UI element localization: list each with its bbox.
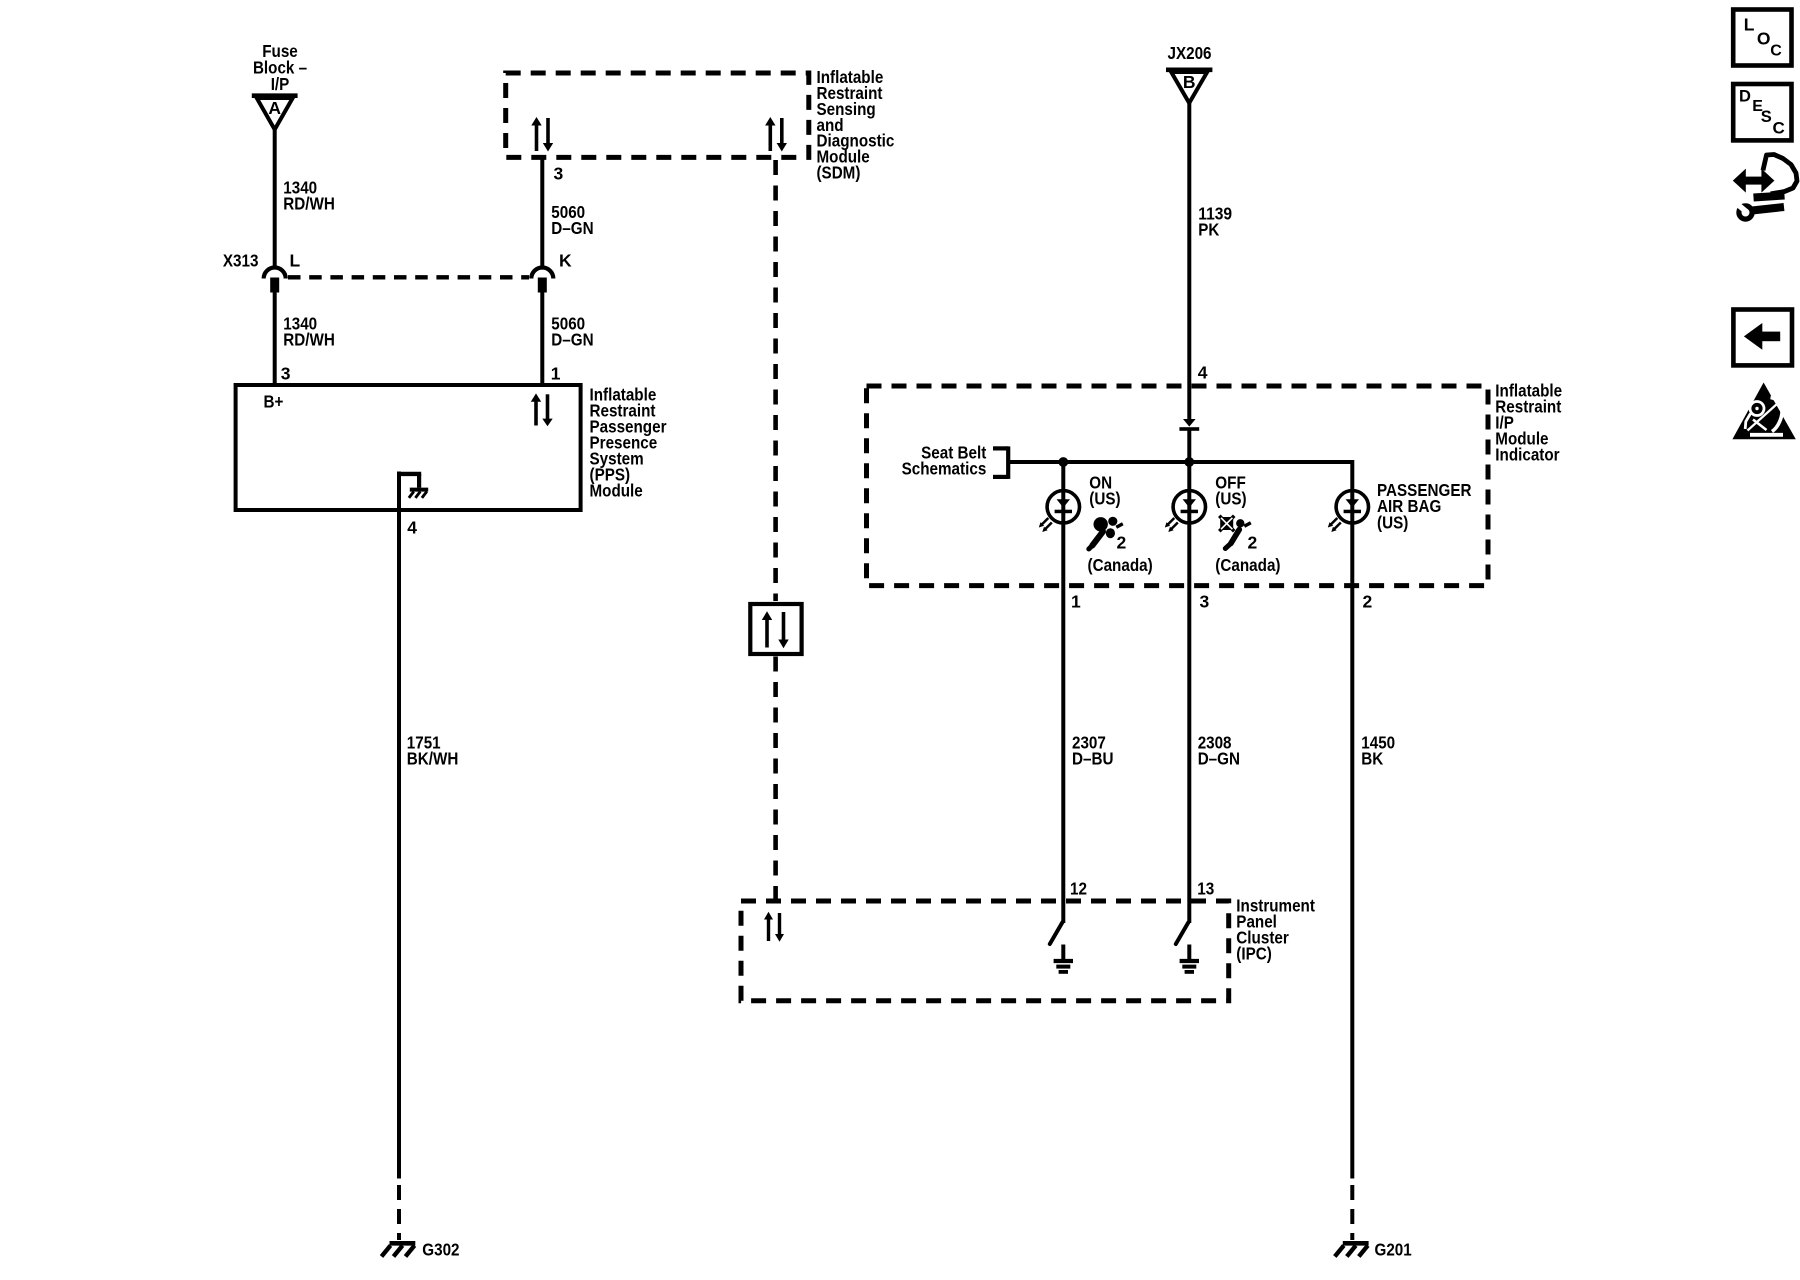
wire X313 K to PPS pin 1 <box>540 292 544 385</box>
IPC module dashed box <box>741 901 1229 1001</box>
connector X313 cavity L <box>264 250 301 292</box>
dashed in-connector line X313 L to K <box>288 275 529 279</box>
IPC module name text <box>1236 896 1315 964</box>
svg-text:Indicator: Indicator <box>1495 445 1559 465</box>
junction triangle connector B <box>1166 70 1212 103</box>
ground G302 symbol <box>382 1240 460 1260</box>
label circuit 1340 RD/WH lower <box>283 314 335 350</box>
svg-text:RD/WH: RD/WH <box>283 330 335 350</box>
svg-text:G201: G201 <box>1375 1240 1412 1260</box>
svg-text:G302: G302 <box>422 1240 459 1260</box>
svg-text:O: O <box>1757 29 1771 49</box>
svg-text:D–GN: D–GN <box>551 218 593 238</box>
svg-text:S: S <box>1761 108 1772 126</box>
SDM bidirectional arrows left <box>531 117 553 152</box>
svg-text:(Canada): (Canada) <box>1215 555 1280 575</box>
svg-text:1: 1 <box>1071 591 1081 611</box>
ground G201 symbol <box>1335 1240 1412 1260</box>
svg-text:3: 3 <box>1200 591 1210 611</box>
svg-text:L: L <box>1744 14 1755 34</box>
svg-text:12: 12 <box>1070 879 1087 899</box>
svg-text:Schematics: Schematics <box>902 458 987 478</box>
indicator lamp PASSENGER AIR BAG <box>1328 491 1369 532</box>
wire X313 L to PPS pin 3 <box>273 292 277 385</box>
lamp PASSENGER AIR BAG caption <box>1377 480 1472 533</box>
svg-text:(US): (US) <box>1215 489 1246 509</box>
svg-text:BK/WH: BK/WH <box>407 748 459 768</box>
PPS module box <box>236 385 581 510</box>
IPC ground symbol pin 13 <box>1180 945 1199 972</box>
dashed link wire SDM to connector box <box>773 160 778 601</box>
svg-text:I/P: I/P <box>271 74 290 94</box>
dashed wire tail at G302 <box>397 1185 401 1240</box>
junction dot lamp2 <box>1184 457 1194 467</box>
indicator module dashed box <box>867 386 1489 586</box>
indicator module name text <box>1495 381 1562 465</box>
svg-text:(US): (US) <box>1377 512 1408 532</box>
svg-text:4: 4 <box>407 518 417 538</box>
IPC switch for pin 13 <box>1176 901 1190 944</box>
indicator lamp OFF <box>1165 491 1206 532</box>
label circuit 5060 D-GN lower <box>551 314 593 350</box>
IPC bidirectional arrows <box>764 912 784 942</box>
svg-text:B+: B+ <box>264 391 284 411</box>
IPC ground symbol pin 12 <box>1054 945 1073 972</box>
indicator feed bus wire <box>1010 460 1352 464</box>
back arrow reference icon box <box>1733 310 1792 366</box>
SDM bidirectional arrows right <box>765 117 787 152</box>
svg-text:(SDM): (SDM) <box>817 163 861 183</box>
LOC reference icon box <box>1733 10 1791 66</box>
svg-text:A: A <box>268 98 281 118</box>
connector X313 cavity K <box>531 250 572 292</box>
svg-text:D–GN: D–GN <box>1198 748 1240 768</box>
seat belt schematics reference label <box>902 442 987 478</box>
PPS module name text <box>590 384 667 500</box>
fuse block triangle connector A <box>252 96 298 130</box>
wire bus through OFF lamp to IPC pin 13 <box>1187 462 1191 901</box>
label circuit 2308 D-GN <box>1198 732 1240 768</box>
seat belt reference bracket <box>993 446 1008 479</box>
svg-text:(US): (US) <box>1089 489 1120 509</box>
svg-text:(IPC): (IPC) <box>1236 944 1272 964</box>
wire bus through ON lamp to IPC pin 12 <box>1061 462 1065 901</box>
wire SDM pin 3 to X313 K <box>540 158 544 268</box>
svg-text:K: K <box>559 250 572 270</box>
indicator lamp ON <box>1039 491 1080 532</box>
svg-text:C: C <box>1773 119 1785 138</box>
wiring repair reference icon (arrow glove wrench) <box>1733 155 1797 220</box>
wire fuse to X313 pin L <box>273 130 277 268</box>
PPS bidirectional arrows <box>531 393 553 426</box>
svg-text:4: 4 <box>1198 362 1208 382</box>
svg-text:2: 2 <box>1117 533 1127 553</box>
DESC reference icon box <box>1733 84 1791 140</box>
svg-text:1: 1 <box>551 363 561 383</box>
lamp OFF caption <box>1215 473 1246 509</box>
svg-text:D–GN: D–GN <box>551 330 593 350</box>
wire JX206 to indicator pin 4 <box>1187 103 1191 419</box>
svg-text:D: D <box>1739 87 1751 105</box>
svg-text:C: C <box>1770 42 1782 59</box>
PPS internal ground symbol <box>397 474 428 498</box>
svg-text:2: 2 <box>1363 591 1373 611</box>
svg-text:3: 3 <box>554 164 564 184</box>
airbag service caution triangle icon <box>1732 383 1795 440</box>
svg-text:JX206: JX206 <box>1168 43 1212 63</box>
SDM module dashed box <box>506 73 809 157</box>
lamp ON caption <box>1089 473 1120 509</box>
svg-text:2: 2 <box>1248 533 1258 553</box>
svg-text:B: B <box>1183 72 1196 92</box>
label circuit 1139 PK <box>1198 204 1232 240</box>
airbag pictograph OFF crossed (Canada) <box>1219 516 1257 553</box>
svg-text:X313: X313 <box>223 250 259 270</box>
dashed wire tail at G201 <box>1350 1185 1354 1240</box>
junction dot lamp1 <box>1058 457 1068 467</box>
label circuit 5060 D-GN upper <box>551 202 593 238</box>
label circuit 2307 D-BU <box>1072 732 1114 768</box>
wire bus corner through PASSENGER AIR BAG lamp to G201 <box>1350 460 1354 1179</box>
svg-text:BK: BK <box>1361 748 1383 768</box>
svg-text:PK: PK <box>1198 220 1219 240</box>
svg-text:3: 3 <box>281 363 291 383</box>
svg-text:13: 13 <box>1197 879 1214 899</box>
svg-text:(Canada): (Canada) <box>1088 555 1153 575</box>
fuse block label <box>253 41 307 94</box>
IPC switch for pin 12 <box>1050 901 1064 944</box>
polarity diode symbol at pin 4 <box>1179 419 1199 462</box>
svg-text:RD/WH: RD/WH <box>283 193 335 213</box>
svg-text:D–BU: D–BU <box>1072 748 1114 768</box>
label circuit 1751 BK/WH <box>407 732 459 768</box>
wire PPS pin 4 to G302 <box>397 472 401 1179</box>
label circuit 1450 BK <box>1361 732 1395 768</box>
airbag pictograph ON (Canada) <box>1089 517 1127 553</box>
SDM module name text <box>817 67 895 182</box>
label circuit 1340 RD/WH upper <box>283 177 335 213</box>
in-line connector box with arrows <box>750 604 801 654</box>
svg-text:Module: Module <box>590 480 643 500</box>
svg-text:L: L <box>290 250 301 270</box>
dashed link wire connector box to IPC <box>773 657 778 900</box>
